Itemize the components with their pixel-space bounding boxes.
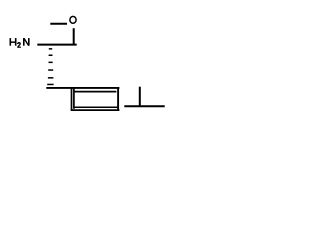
subscript 2 of H2N, vector glyph (17, 43, 21, 48)
benzene ring: bottom inner double-bond line (73, 106, 118, 108)
wire: CH2-ring bond merging into ring top edge (46, 87, 72, 89)
atom label O (ether oxygen), drawn as ellipse glyph (70, 16, 76, 23)
wire: methyl CH3-O bond (50, 23, 67, 25)
atom label N of H2N, vector glyph (23, 38, 30, 46)
hashed wedge stereo bond: dash 6 (47, 84, 53, 86)
benzene ring: right vertical edge (117, 87, 119, 110)
atom label H of H2N, vector glyph (10, 38, 17, 46)
hashed wedge stereo bond: dash 2 (49, 55, 53, 57)
wire: O-CH2 vertical bond (73, 28, 75, 44)
benzene ring: bottom outer edge (71, 109, 120, 111)
wire: H2N-CH bond (main horizontal) (37, 44, 76, 46)
benzene ring: left outer vertical edge (71, 87, 73, 110)
benzene ring: top outer edge (71, 87, 120, 89)
hashed wedge stereo bond: dash 5 (48, 77, 54, 79)
hashed wedge stereo bond: dash 4 (48, 69, 53, 71)
benzene ring: left inner double-bond vertical line (73, 89, 75, 109)
tee fragment: vertical C-C bond (139, 87, 141, 107)
tee fragment: horizontal C-C bond (124, 105, 164, 107)
hashed wedge stereo bond: dash 3 (49, 62, 53, 64)
benzene ring: top inner double-bond line (74, 91, 116, 93)
hashed wedge stereo bond: dash 1 (49, 48, 52, 50)
